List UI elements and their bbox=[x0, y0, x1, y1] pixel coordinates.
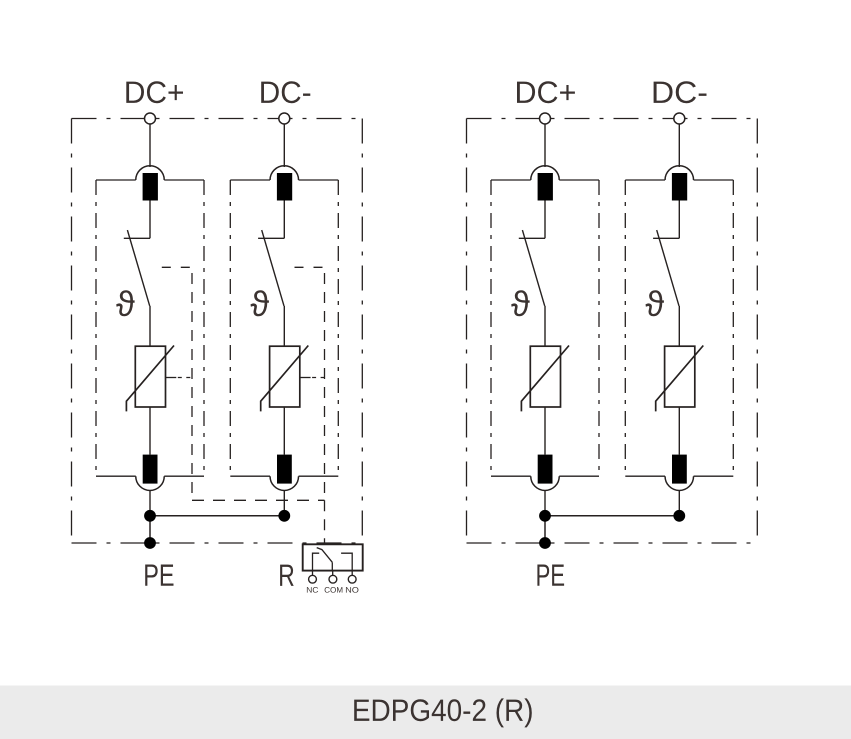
label COM bbox=[325, 587, 343, 593]
lower contact element (fuse block) (right circuit branch DC+) bbox=[538, 455, 553, 484]
relay terminal COM bbox=[329, 575, 337, 583]
module boundary box (left circuit branch DC-) bbox=[230, 180, 338, 476]
PE node left circuit bbox=[144, 537, 156, 549]
wire switch to varistor (left circuit branch DC-) bbox=[283, 306, 285, 346]
temperature symbol theta (left circuit branch DC-) bbox=[251, 290, 269, 316]
wire varistor to lower contact (right circuit branch DC-) bbox=[678, 407, 680, 455]
SPD enclosure boundary (dash-dot box) left circuit bbox=[72, 119, 363, 544]
label DC- left circuit bbox=[261, 81, 310, 103]
label NC bbox=[307, 587, 318, 593]
wire lower contact to junction (right circuit branch DC+) bbox=[544, 491, 546, 516]
wire terminal to upper contact (right circuit branch DC+) bbox=[544, 124, 546, 167]
wire switch to varistor (left circuit branch DC+) bbox=[149, 306, 151, 346]
temperature symbol theta (left circuit branch DC+) bbox=[116, 290, 134, 316]
varistor MOV (right circuit branch DC+) bbox=[521, 346, 569, 412]
thermal linkage dashed line branch2 (left) bbox=[295, 267, 325, 500]
temperature symbol theta (right circuit branch DC+) bbox=[511, 290, 529, 316]
terminal DC- left circuit bbox=[279, 113, 290, 124]
lower plug contact arch (left circuit branch DC+) bbox=[136, 476, 165, 490]
label DC+ left circuit bbox=[126, 81, 183, 103]
thermal disconnector switch (left circuit branch DC-) bbox=[258, 230, 284, 306]
label PE left circuit bbox=[145, 564, 173, 585]
relay NC contact bbox=[313, 553, 320, 570]
thermal disconnector switch (right circuit branch DC+) bbox=[519, 230, 545, 306]
label NO bbox=[346, 587, 359, 593]
SPD enclosure boundary (dash-dot box) right circuit bbox=[467, 119, 758, 544]
upper plug contact arch (left circuit branch DC+) bbox=[136, 166, 165, 180]
varistor MOV (left circuit branch DC-) bbox=[261, 346, 309, 412]
wire varistor to lower contact (right circuit branch DC+) bbox=[544, 407, 546, 455]
PE bus wire right circuit bbox=[545, 515, 679, 517]
module boundary box (right circuit branch DC+) bbox=[491, 180, 599, 476]
wire fuse to switch (right circuit branch DC+) bbox=[544, 201, 546, 239]
lower plug contact arch (right circuit branch DC+) bbox=[531, 476, 560, 490]
thermal disconnector switch (right circuit branch DC-) bbox=[653, 230, 679, 306]
label DC+ right circuit bbox=[517, 81, 575, 103]
linkage bottom dashed run to relay bbox=[192, 500, 325, 544]
thermal disconnect element (fuse block) (right circuit branch DC-) bbox=[672, 173, 687, 201]
terminal DC+ left circuit bbox=[145, 113, 156, 124]
varistor status tie branch2 (left) bbox=[300, 377, 325, 379]
junction node left circuit branch1 bbox=[144, 510, 156, 522]
lower plug contact arch (left circuit branch DC-) bbox=[270, 476, 299, 490]
PE bus wire left circuit bbox=[150, 515, 284, 517]
varistor MOV (right circuit branch DC-) bbox=[656, 346, 704, 412]
title text EDPG40-2 (R) bbox=[354, 698, 532, 727]
label DC- right circuit bbox=[654, 81, 707, 103]
terminal DC+ right circuit bbox=[540, 113, 551, 124]
thermal linkage dashed line branch1 (left) bbox=[162, 267, 192, 500]
terminal DC- right circuit bbox=[674, 113, 685, 124]
lower contact element (fuse block) (right circuit branch DC-) bbox=[672, 455, 687, 484]
PE node right circuit bbox=[539, 537, 551, 549]
varistor status tie branch1 (left) bbox=[166, 377, 192, 379]
label PE right circuit bbox=[537, 564, 564, 585]
thermal disconnect element (fuse block) (right circuit branch DC+) bbox=[538, 173, 553, 201]
thermal disconnector switch (left circuit branch DC+) bbox=[124, 230, 150, 306]
wire terminal to upper contact (right circuit branch DC-) bbox=[678, 124, 680, 167]
junction node right circuit branch1 bbox=[539, 510, 551, 522]
relay NO contact bbox=[341, 553, 352, 570]
upper plug contact arch (left circuit branch DC-) bbox=[270, 166, 299, 180]
wire fuse to switch (right circuit branch DC-) bbox=[678, 201, 680, 239]
junction node left circuit branch2 bbox=[278, 510, 290, 522]
varistor MOV (left circuit branch DC+) bbox=[126, 346, 174, 412]
lower plug contact arch (right circuit branch DC-) bbox=[665, 476, 694, 490]
relay changeover blade bbox=[317, 548, 333, 563]
module boundary box (right circuit branch DC-) bbox=[625, 180, 733, 476]
wire junction to PE right circuit bbox=[544, 516, 546, 543]
wire lower contact to junction (right circuit branch DC-) bbox=[678, 491, 680, 516]
wire lower contact to junction (left circuit branch DC+) bbox=[149, 491, 151, 516]
wire switch to varistor (right circuit branch DC+) bbox=[544, 306, 546, 346]
lower contact element (fuse block) (left circuit branch DC-) bbox=[277, 455, 292, 484]
remote signalling contact box R bbox=[303, 544, 363, 570]
relay terminal NC bbox=[309, 575, 317, 583]
title bar bbox=[0, 686, 851, 739]
wire switch to varistor (right circuit branch DC-) bbox=[678, 306, 680, 346]
wire fuse to switch (left circuit branch DC-) bbox=[283, 201, 285, 239]
relay terminal stubs bbox=[313, 571, 353, 576]
upper plug contact arch (right circuit branch DC+) bbox=[531, 166, 560, 180]
temperature symbol theta (right circuit branch DC-) bbox=[646, 290, 664, 316]
lower contact element (fuse block) (left circuit branch DC+) bbox=[143, 455, 158, 484]
thermal disconnect element (fuse block) (left circuit branch DC-) bbox=[277, 173, 292, 201]
label R bbox=[280, 565, 294, 586]
relay terminal NO bbox=[348, 575, 356, 583]
junction node right circuit branch2 bbox=[673, 510, 685, 522]
wire terminal to upper contact (left circuit branch DC+) bbox=[149, 124, 151, 167]
wire junction to PE left circuit bbox=[149, 516, 151, 543]
wire varistor to lower contact (left circuit branch DC-) bbox=[283, 407, 285, 455]
wire lower contact to junction (left circuit branch DC-) bbox=[283, 491, 285, 516]
upper plug contact arch (right circuit branch DC-) bbox=[665, 166, 694, 180]
wire varistor to lower contact (left circuit branch DC+) bbox=[149, 407, 151, 455]
thermal disconnect element (fuse block) (left circuit branch DC+) bbox=[143, 173, 158, 201]
wire terminal to upper contact (left circuit branch DC-) bbox=[283, 124, 285, 167]
module boundary box (left circuit branch DC+) bbox=[96, 180, 204, 476]
relay COM pole bbox=[331, 562, 333, 570]
wire fuse to switch (left circuit branch DC+) bbox=[149, 201, 151, 239]
